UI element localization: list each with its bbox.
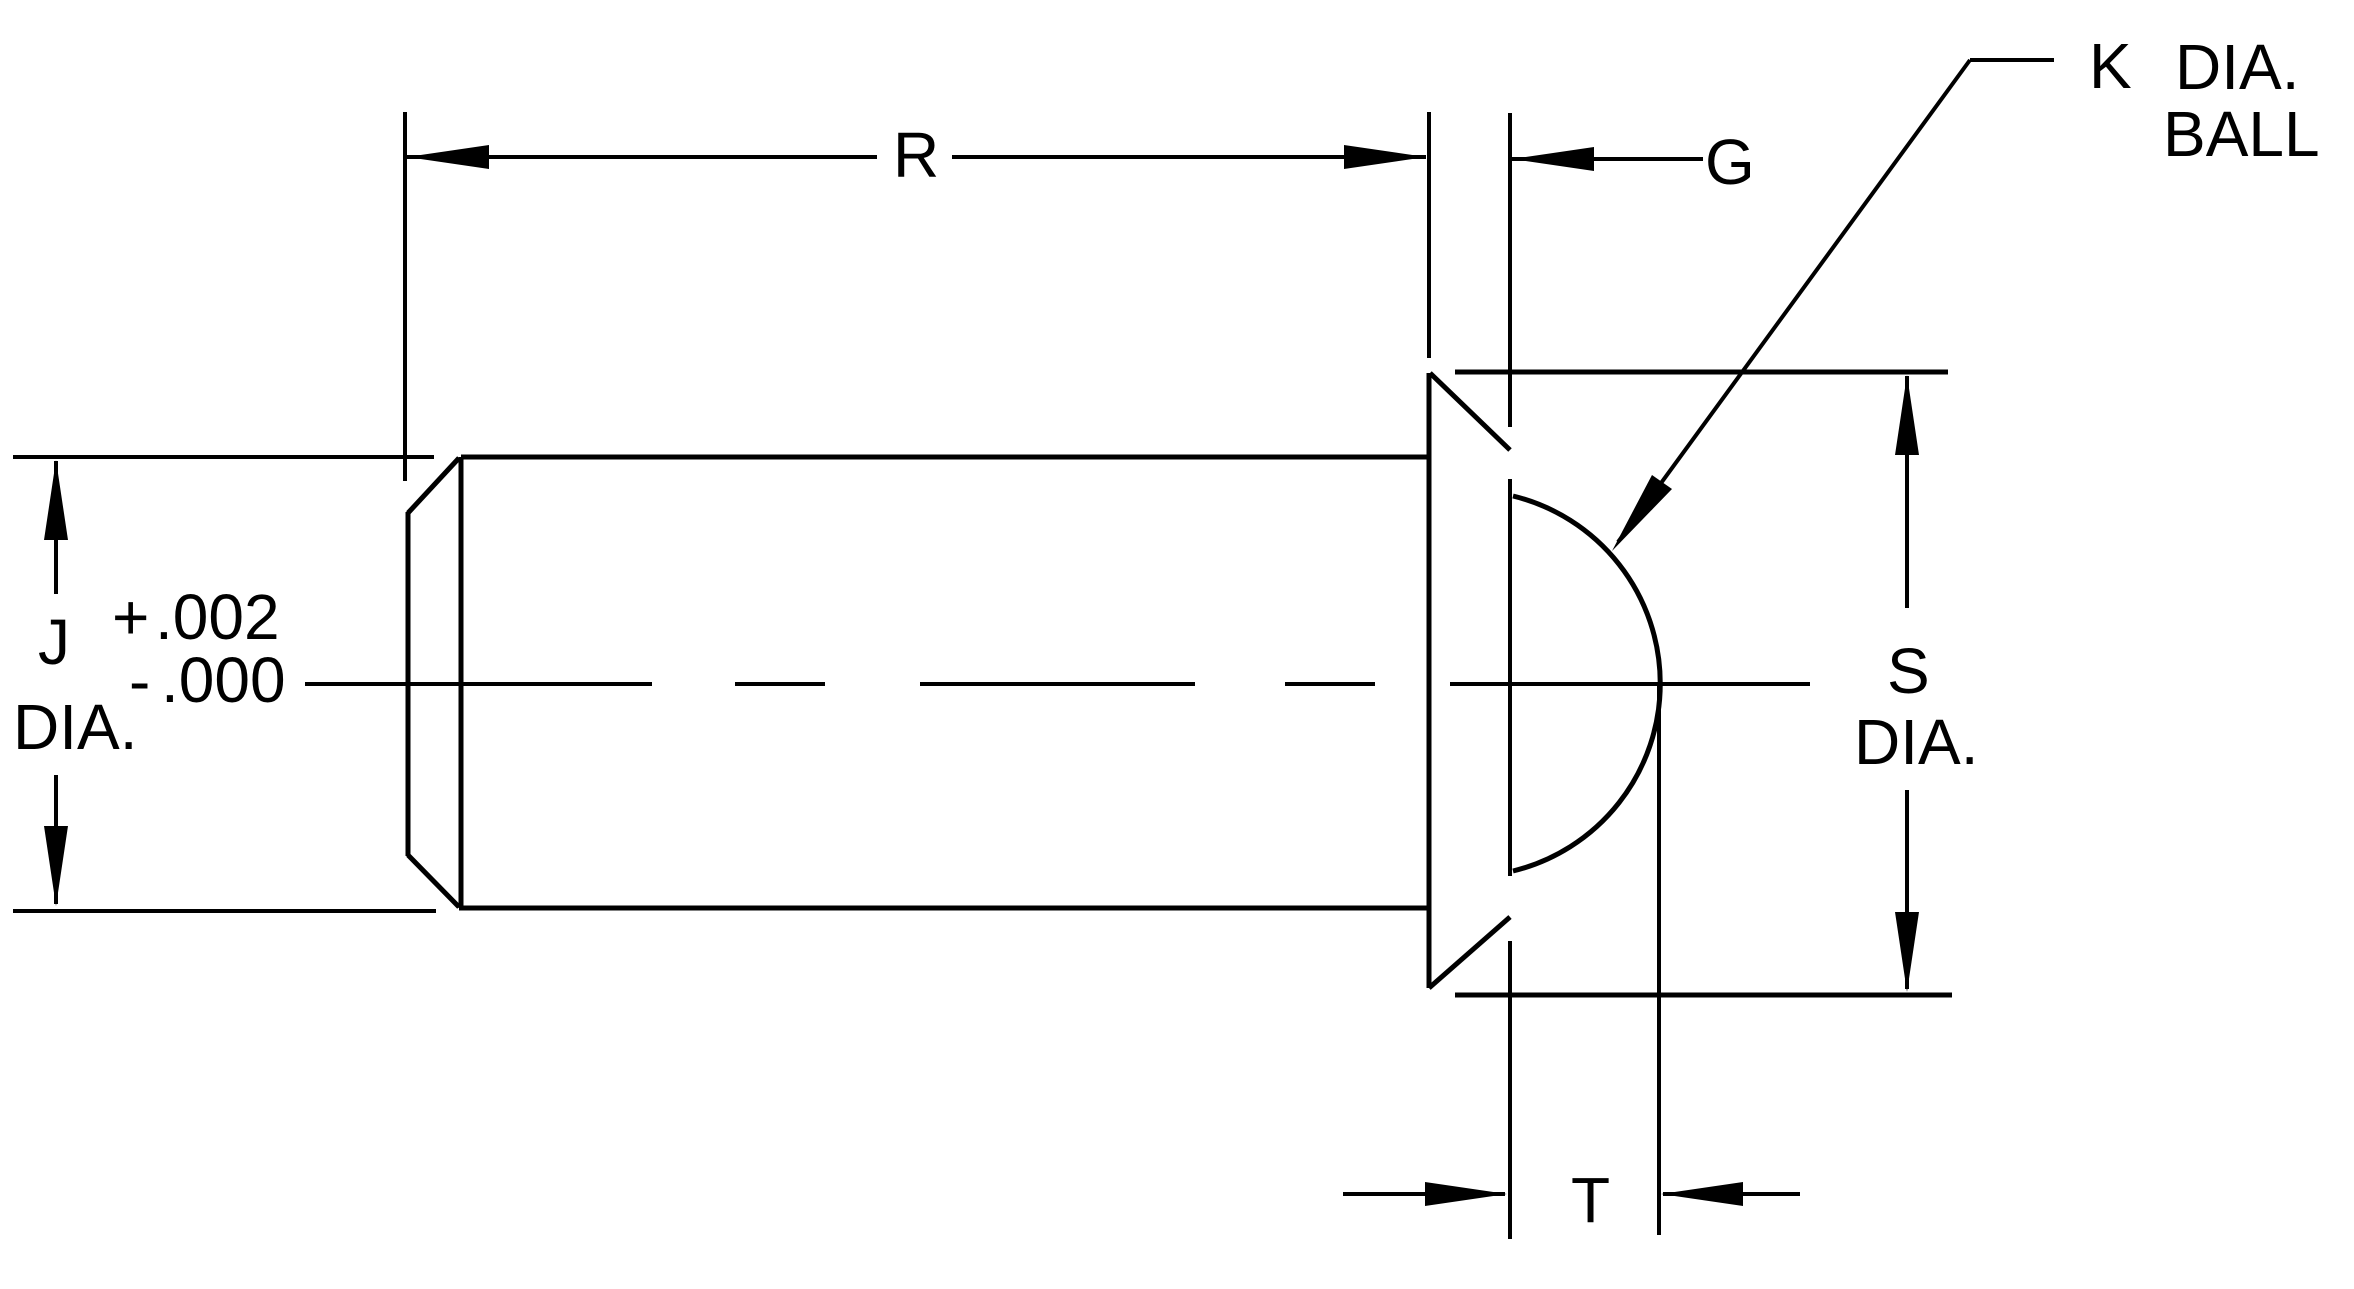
svg-text:DIA.: DIA. xyxy=(1854,706,1978,778)
svg-text:DIA.: DIA. xyxy=(2175,31,2299,103)
svg-text:J: J xyxy=(38,606,70,678)
svg-text:BALL: BALL xyxy=(2163,98,2320,170)
svg-text:S: S xyxy=(1887,635,1930,707)
svg-text:.002: .002 xyxy=(155,581,280,653)
svg-text:T: T xyxy=(1571,1164,1610,1236)
svg-text:+: + xyxy=(112,581,149,653)
svg-text:G: G xyxy=(1705,126,1755,198)
svg-text:.000: .000 xyxy=(161,644,286,716)
svg-text:K: K xyxy=(2089,30,2132,102)
svg-text:DIA.: DIA. xyxy=(13,691,137,763)
svg-text:R: R xyxy=(893,119,939,191)
